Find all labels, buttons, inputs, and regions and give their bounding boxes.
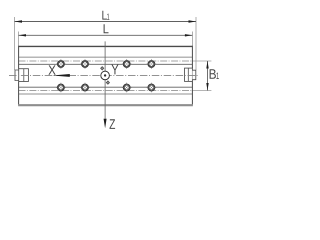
label B1	[210, 69, 216, 79]
body inner solid line upper rail (through screws)	[19, 63, 193, 65]
screw B2	[80, 83, 90, 93]
B1 extension line upper	[192, 60, 211, 62]
screw T1	[56, 59, 66, 69]
screw B3	[122, 83, 132, 93]
extension line L left	[18, 32, 20, 47]
origin circle (Y axis out of plane)	[101, 71, 110, 80]
right shaft end block	[192, 70, 195, 80]
label Y	[111, 65, 118, 75]
body inner solid line lower	[19, 93, 193, 95]
body right edge	[191, 46, 193, 105]
extension line L1 left	[14, 17, 16, 70]
body inner solid line upper	[19, 56, 193, 58]
rail centerline upper (dash-dot)	[19, 60, 193, 62]
dimension L1 arrow left	[15, 20, 23, 22]
screw B4	[147, 83, 157, 93]
screw T2	[80, 59, 90, 69]
body top edge	[19, 45, 193, 47]
origin marker diamond upper-left	[101, 67, 104, 70]
screw B1	[56, 83, 66, 93]
label L	[104, 24, 109, 33]
left coupling housing	[19, 69, 29, 82]
vertical centerline / Z axis	[104, 41, 106, 119]
extension line L right	[191, 32, 193, 47]
B1 arrow up	[206, 61, 208, 69]
B1 extension line lower	[192, 90, 211, 92]
label X	[48, 65, 55, 74]
dimension L line	[19, 34, 193, 36]
left shaft end block	[15, 70, 19, 81]
left coupling divider	[23, 69, 25, 82]
screw T4	[147, 59, 157, 69]
body inner solid line lower rail (through screws)	[19, 86, 193, 88]
right coupling housing	[185, 68, 193, 81]
X axis arrow	[52, 74, 70, 77]
extension line L1 right	[195, 17, 197, 70]
Z axis arrowhead	[104, 119, 107, 129]
dimension L arrow right	[185, 34, 193, 36]
origin marker diamond lower-right	[106, 81, 109, 84]
body bottom edge (thick)	[18, 104, 193, 106]
rail centerline lower (dash-dot)	[19, 90, 193, 92]
right coupling divider	[187, 68, 189, 81]
label Z	[110, 119, 116, 129]
B1 dimension line	[207, 61, 209, 91]
dimension L1 arrow right	[189, 20, 197, 22]
screw T3	[122, 59, 132, 69]
body left edge	[18, 46, 20, 105]
main horizontal centerline (dash-dot)	[9, 74, 199, 76]
dimension L arrow left	[19, 34, 27, 36]
label L1	[102, 11, 107, 20]
dimension L1 line	[15, 21, 197, 23]
B1 arrow down	[206, 83, 208, 91]
